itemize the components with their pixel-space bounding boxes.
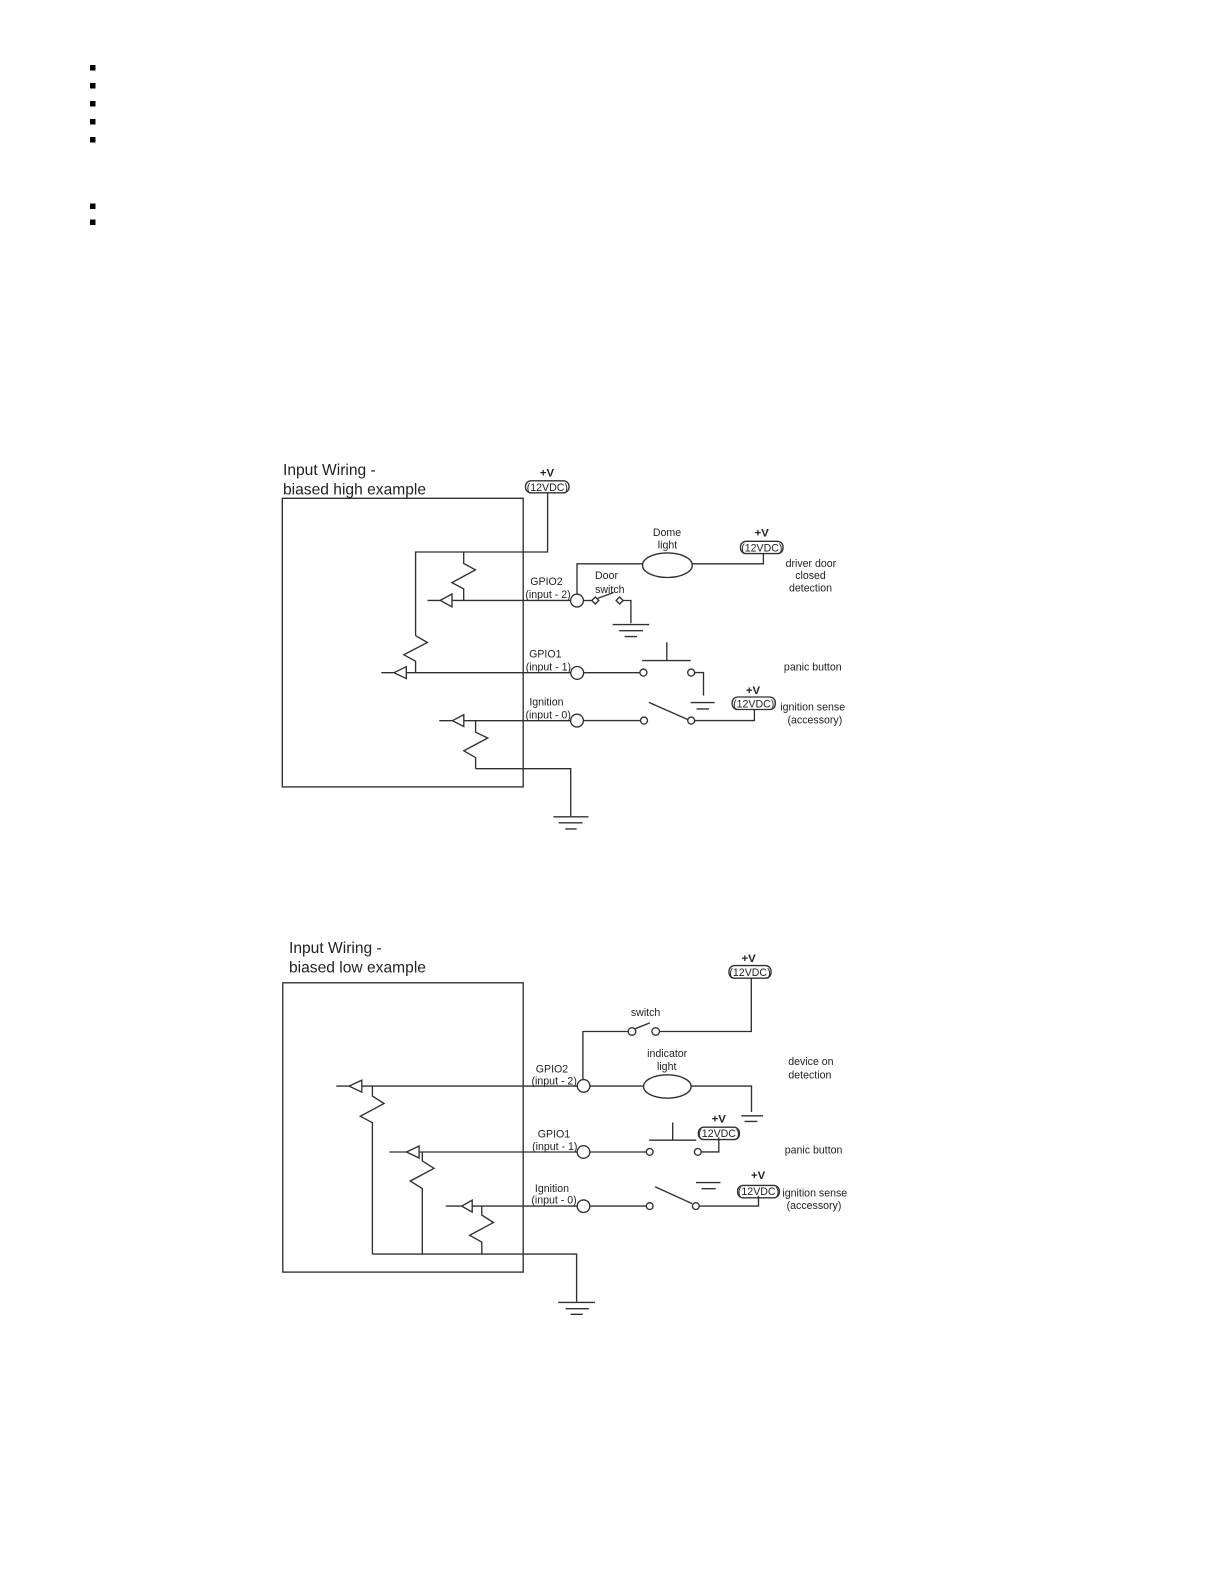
wire ignition line — [464, 720, 571, 722]
panic button contact A — [640, 669, 647, 676]
wire door switch to ground — [623, 601, 631, 624]
svg-text:biased low example: biased low example — [289, 959, 426, 976]
lamp indicator light — [644, 1075, 692, 1098]
terminal GPIO1 — [571, 667, 584, 680]
svg-text:(input - 2): (input - 2) — [525, 589, 570, 601]
svg-text:device on: device on — [788, 1056, 833, 1068]
terminal GPIO2 — [577, 1080, 590, 1093]
svg-text:+V: +V — [746, 685, 760, 697]
wire panic button to +V — [701, 1137, 719, 1152]
svg-text:(12VDC): (12VDC) — [527, 482, 568, 494]
bullet list squares — [90, 65, 96, 225]
wire +V down to switch — [660, 978, 752, 1031]
ground device on — [741, 1116, 763, 1122]
ground main (diagram 2) — [558, 1302, 595, 1314]
buffer U2 (GPIO2 input) — [336, 1080, 362, 1092]
resistor pull-up GPIO1 — [404, 636, 428, 673]
svg-text:+V: +V — [751, 1170, 765, 1182]
svg-text:switch: switch — [631, 1007, 661, 1019]
buffer U0 (Ignition input) — [439, 715, 464, 727]
svg-text:Ignition: Ignition — [535, 1183, 569, 1195]
wire GPIO1 line — [406, 672, 570, 674]
svg-text:light: light — [658, 540, 677, 552]
svg-text:(input - 1): (input - 1) — [532, 1141, 577, 1153]
ground floating (ignition) — [696, 1183, 721, 1189]
ignition switch contact B — [692, 1203, 699, 1210]
resistor pull-down GPIO2 — [360, 1086, 384, 1254]
ground panic button — [691, 703, 715, 709]
svg-text:(input - 0): (input - 0) — [531, 1194, 576, 1206]
power symbol +V (12VDC) ignition — [738, 1185, 780, 1197]
svg-text:Door: Door — [595, 570, 618, 582]
svg-text:+V: +V — [540, 467, 554, 479]
svg-text:(12VDC): (12VDC) — [729, 967, 770, 979]
svg-text:(accessory): (accessory) — [788, 714, 843, 726]
resistor pull-down Ignition — [470, 1206, 494, 1254]
terminal Ignition — [577, 1200, 590, 1213]
svg-text:closed: closed — [795, 570, 826, 582]
switch contact A — [628, 1028, 636, 1036]
ignition switch contact A — [641, 717, 648, 724]
svg-text:(input - 1): (input - 1) — [526, 662, 571, 674]
svg-text:ignition sense: ignition sense — [782, 1187, 847, 1199]
svg-text:ignition sense: ignition sense — [780, 702, 845, 714]
buffer U1 (GPIO1 input) — [389, 1146, 419, 1158]
terminal GPIO2 — [571, 594, 584, 607]
svg-text:panic button: panic button — [785, 1144, 843, 1156]
panic button actuator — [642, 642, 691, 660]
wire GPIO2 node up to dome light — [577, 564, 643, 594]
wire GPIO2 line — [362, 1085, 578, 1087]
svg-text:GPIO1: GPIO1 — [538, 1129, 570, 1141]
svg-text:+V: +V — [755, 527, 769, 539]
svg-text:+V: +V — [712, 1114, 726, 1126]
ignition switch contact B — [688, 717, 695, 724]
ignition switch lever — [655, 1187, 692, 1204]
switch contact B — [652, 1028, 660, 1036]
svg-text:GPIO2: GPIO2 — [530, 576, 562, 588]
svg-text:+V: +V — [742, 953, 756, 965]
door switch contact A — [592, 597, 599, 604]
wire GPIO2 to door switch — [583, 600, 591, 602]
svg-text:(input - 2): (input - 2) — [532, 1075, 577, 1087]
lamp dome light — [643, 553, 693, 578]
device box (biased low) — [283, 983, 523, 1272]
wire GPIO2 line — [452, 599, 571, 601]
svg-text:(12VDC): (12VDC) — [733, 698, 774, 710]
svg-text:detection: detection — [789, 583, 832, 595]
svg-text:Ignition: Ignition — [529, 697, 563, 709]
resistor pull-down Ignition — [464, 721, 488, 769]
wire GPIO1 to panic button — [590, 1151, 647, 1153]
power symbol +V (12VDC) dome — [741, 541, 784, 553]
svg-text:driver door: driver door — [786, 558, 837, 570]
wire ignition to switch — [583, 720, 640, 722]
buffer U1 (GPIO1 input) — [381, 667, 406, 679]
wire +V down and bias rail — [416, 493, 548, 636]
wire dome light to +V — [692, 554, 763, 564]
terminal Ignition — [571, 714, 584, 727]
panic button contact B — [688, 669, 695, 676]
wire ignition to switch — [590, 1205, 647, 1207]
device box (biased high) — [282, 498, 523, 787]
power symbol +V (12VDC) panic — [698, 1127, 739, 1139]
panic button contact B — [694, 1149, 701, 1156]
wire GPIO1 to panic button — [584, 672, 640, 674]
power symbol +V (12VDC) top — [729, 966, 771, 979]
wire ignition line — [472, 1205, 577, 1207]
wire ignition switch to +V — [695, 710, 755, 721]
resistor pull-up GPIO2 — [452, 552, 476, 600]
svg-text:(12VDC): (12VDC) — [738, 1186, 779, 1198]
svg-text:(accessory): (accessory) — [787, 1200, 842, 1212]
power symbol +V (12VDC) ignition — [732, 697, 775, 710]
svg-text:GPIO2: GPIO2 — [536, 1064, 568, 1076]
panic button contact A — [646, 1149, 653, 1156]
wire GPIO2 to indicator light — [590, 1085, 644, 1087]
ignition switch contact A — [646, 1203, 653, 1210]
svg-text:Input Wiring -: Input Wiring - — [289, 940, 382, 957]
terminal GPIO1 — [577, 1146, 590, 1159]
svg-text:(input - 0): (input - 0) — [526, 709, 571, 721]
ground main (diagram 1) — [553, 817, 588, 829]
door switch contact B — [616, 597, 623, 604]
wire GPIO1 line — [419, 1151, 577, 1153]
svg-text:switch: switch — [595, 584, 625, 596]
svg-text:panic button: panic button — [784, 661, 842, 673]
wire ignition switch to +V — [699, 1196, 758, 1207]
svg-text:(12VDC): (12VDC) — [698, 1128, 739, 1140]
wire indicator light to ground — [691, 1086, 751, 1112]
svg-text:biased high example: biased high example — [283, 481, 426, 498]
diagram 2: Input Wiring - biased low example — [283, 940, 847, 1314]
buffer U2 (GPIO2 input) — [428, 594, 453, 607]
ignition switch lever — [649, 702, 688, 719]
panic button actuator — [649, 1123, 696, 1141]
power symbol +V (12VDC) top — [526, 481, 570, 493]
ground door switch — [613, 625, 650, 637]
svg-text:Input Wiring -: Input Wiring - — [283, 462, 376, 479]
wire switch to GPIO2 node — [583, 1032, 628, 1080]
svg-text:Dome: Dome — [653, 527, 681, 539]
resistor pull-down GPIO1 — [410, 1152, 434, 1254]
svg-text:light: light — [657, 1061, 676, 1073]
buffer U0 (Ignition input) — [446, 1200, 473, 1212]
diagram 1: Input Wiring - biased high example — [282, 462, 845, 829]
svg-text:GPIO1: GPIO1 — [529, 648, 561, 660]
wire bias rail to main ground — [372, 1254, 576, 1302]
wire panic button to ground — [695, 673, 704, 696]
switch lever — [635, 1023, 650, 1029]
wire ignition resistor to main ground — [476, 769, 571, 817]
door switch lever — [598, 593, 614, 599]
svg-text:indicator: indicator — [647, 1048, 688, 1060]
svg-text:detection: detection — [788, 1070, 831, 1082]
svg-text:(12VDC): (12VDC) — [741, 542, 782, 554]
